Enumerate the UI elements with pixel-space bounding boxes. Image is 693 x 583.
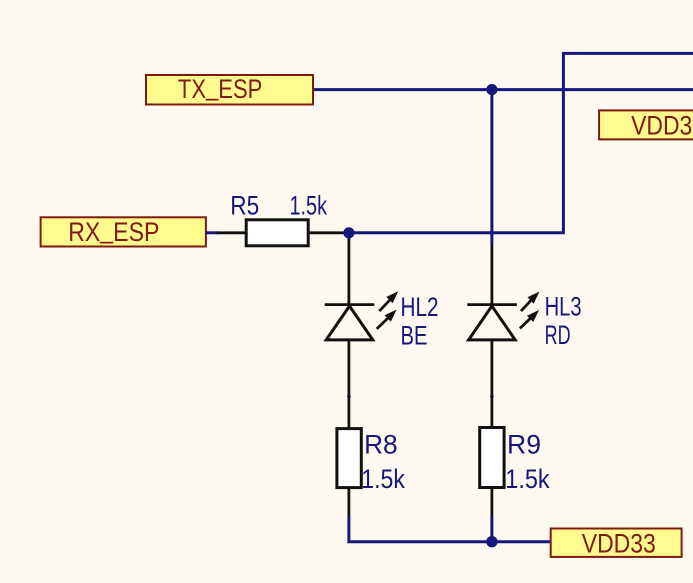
svg-text:1.5k: 1.5k	[290, 191, 328, 221]
wire TX_ESP net (horizontal to right edge)	[313, 88, 693, 91]
wire VDD33 bottom run	[349, 517, 551, 542]
resistor R5	[217, 220, 346, 246]
svg-text:BE: BE	[401, 321, 428, 351]
svg-text:R8: R8	[364, 430, 398, 460]
LED HL2	[325, 239, 399, 395]
wire RX_ESP stub	[206, 231, 218, 234]
global label TX_ESP	[146, 71, 313, 105]
junction TX net / HL3	[486, 84, 497, 95]
junction R9 / VDD33	[486, 536, 497, 547]
svg-text:VDD33: VDD33	[582, 529, 656, 559]
svg-text:RD: RD	[545, 320, 571, 350]
svg-text:RX_ESP: RX_ESP	[68, 214, 159, 247]
junction R5 / RX net / HL2	[343, 227, 354, 238]
global label VDD33 (bottom)	[551, 529, 682, 559]
global label VDD33 (top right, clipped)	[599, 110, 693, 140]
svg-text:1.5k: 1.5k	[361, 464, 405, 494]
svg-text:R5: R5	[230, 191, 259, 221]
pin-end node HL2/R8	[347, 395, 351, 399]
resistor R8	[337, 395, 361, 516]
wire junction stub down	[347, 233, 350, 239]
wire R9 stub to bottom	[490, 517, 493, 542]
wire VDD33 top-right L-run down to RX net	[349, 53, 693, 232]
wire TX junction down to HL3 pin	[490, 90, 493, 245]
svg-text:1.5k: 1.5k	[505, 464, 550, 494]
svg-text:HL3: HL3	[545, 292, 582, 322]
svg-text:HL2: HL2	[401, 292, 439, 322]
svg-text:R9: R9	[507, 430, 541, 460]
global label RX_ESP	[41, 214, 206, 247]
svg-text:VDD33: VDD33	[631, 111, 693, 141]
pin-end node HL3/R9	[490, 395, 494, 399]
LED HL3	[467, 245, 539, 396]
resistor R9	[480, 395, 504, 516]
svg-text:TX_ESP: TX_ESP	[178, 71, 262, 104]
